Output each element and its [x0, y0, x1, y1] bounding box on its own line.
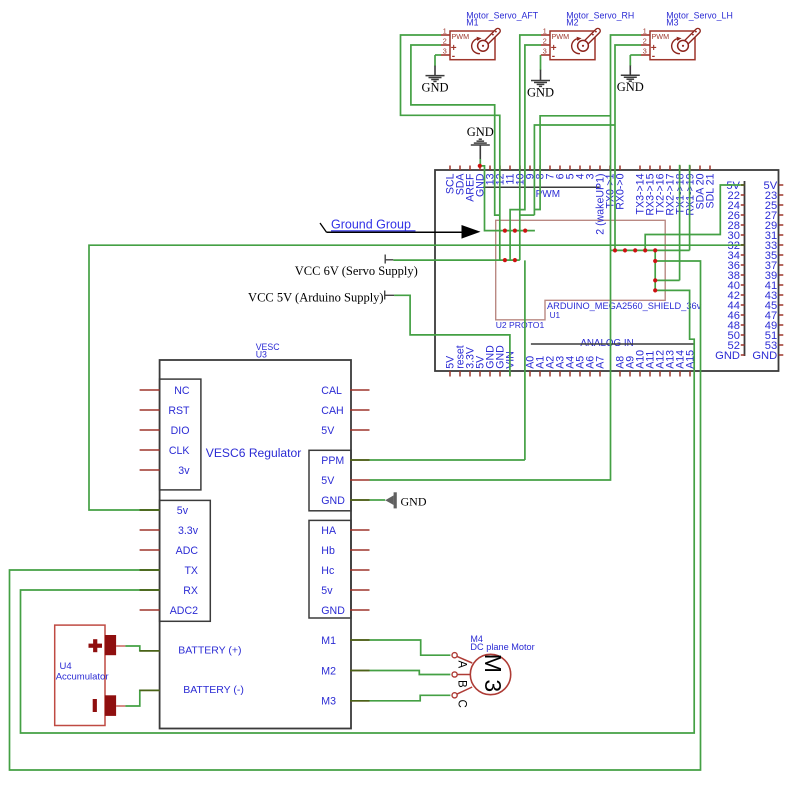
svg-text:ADC2: ADC2	[170, 605, 198, 617]
svg-text:DC plane Motor: DC plane Motor	[470, 642, 534, 652]
svg-text:ARDUINO_MEGA2560_SHIELD_36v: ARDUINO_MEGA2560_SHIELD_36v	[547, 301, 702, 311]
svg-text:5V: 5V	[321, 475, 335, 487]
svg-text:C: C	[456, 700, 468, 708]
svg-text:1: 1	[643, 26, 647, 35]
svg-text:5v: 5v	[321, 585, 333, 597]
svg-text:3: 3	[443, 46, 447, 55]
svg-text:Hb: Hb	[321, 545, 335, 557]
svg-text:-: -	[552, 51, 555, 62]
svg-text:PWM: PWM	[452, 32, 470, 41]
svg-text:TX: TX	[184, 565, 198, 577]
svg-text:GND: GND	[617, 80, 644, 94]
svg-text:U1: U1	[550, 311, 561, 320]
svg-text:VCC 6V (Servo Supply): VCC 6V (Servo Supply)	[295, 264, 418, 278]
svg-text:1: 1	[443, 26, 447, 35]
svg-text:2: 2	[543, 36, 547, 45]
svg-text:RX0->0: RX0->0	[614, 173, 626, 209]
svg-text:DIO: DIO	[171, 425, 190, 437]
svg-text:U4: U4	[60, 661, 72, 672]
svg-text:3.3v: 3.3v	[178, 525, 199, 537]
svg-text:GND: GND	[752, 350, 777, 362]
svg-text:M2: M2	[321, 665, 336, 677]
svg-text:M3: M3	[666, 18, 678, 28]
svg-text:1: 1	[543, 26, 547, 35]
svg-text:Ground Group: Ground Group	[331, 218, 411, 232]
svg-text:GND: GND	[401, 494, 427, 508]
svg-text:2: 2	[643, 36, 647, 45]
svg-text:BATTERY (+): BATTERY (+)	[178, 645, 241, 657]
svg-text:A7: A7	[594, 356, 606, 369]
svg-text:M2: M2	[566, 18, 578, 28]
svg-text:CAL: CAL	[321, 385, 342, 397]
svg-text:PPM: PPM	[321, 455, 344, 467]
svg-text:3: 3	[643, 46, 647, 55]
svg-text:HA: HA	[321, 525, 337, 537]
svg-text:RX: RX	[183, 585, 198, 597]
svg-text:VESC6 Regulator: VESC6 Regulator	[206, 446, 301, 460]
svg-text:ADC: ADC	[176, 545, 199, 557]
svg-text:GND: GND	[467, 125, 494, 139]
svg-text:RST: RST	[168, 405, 190, 417]
svg-text:U2 PROTO1: U2 PROTO1	[496, 320, 545, 330]
svg-text:M1: M1	[321, 635, 336, 647]
svg-text:Accumulator: Accumulator	[56, 672, 109, 683]
svg-text:PWM: PWM	[552, 32, 570, 41]
svg-text:GND: GND	[715, 350, 740, 362]
svg-text:M3: M3	[321, 696, 336, 708]
svg-text:VCC 5V (Arduino Supply): VCC 5V (Arduino Supply)	[248, 291, 384, 305]
svg-text:BATTERY (-): BATTERY (-)	[183, 684, 244, 696]
svg-text:CAH: CAH	[321, 405, 343, 417]
svg-text:B: B	[456, 680, 468, 688]
svg-text:CLK: CLK	[169, 445, 190, 457]
svg-text:PWM: PWM	[652, 32, 670, 41]
svg-text:5V: 5V	[321, 425, 335, 437]
svg-text:3v: 3v	[178, 465, 190, 477]
svg-text:3: 3	[543, 46, 547, 55]
svg-text:GND: GND	[527, 85, 554, 99]
svg-text:U3: U3	[256, 350, 267, 360]
svg-text:5v: 5v	[177, 505, 189, 517]
svg-text:A: A	[456, 661, 468, 669]
svg-text:-: -	[652, 51, 655, 62]
svg-text:M1: M1	[466, 18, 478, 28]
svg-text:M 3: M 3	[480, 654, 506, 692]
svg-text:SDL 21: SDL 21	[704, 173, 716, 208]
svg-text:NC: NC	[174, 385, 190, 397]
svg-text:GND: GND	[421, 81, 448, 95]
svg-text:2: 2	[443, 36, 447, 45]
svg-text:-: -	[452, 51, 455, 62]
svg-text:GND: GND	[321, 605, 345, 617]
svg-text:GND: GND	[321, 495, 345, 507]
svg-text:Hc: Hc	[321, 565, 335, 577]
